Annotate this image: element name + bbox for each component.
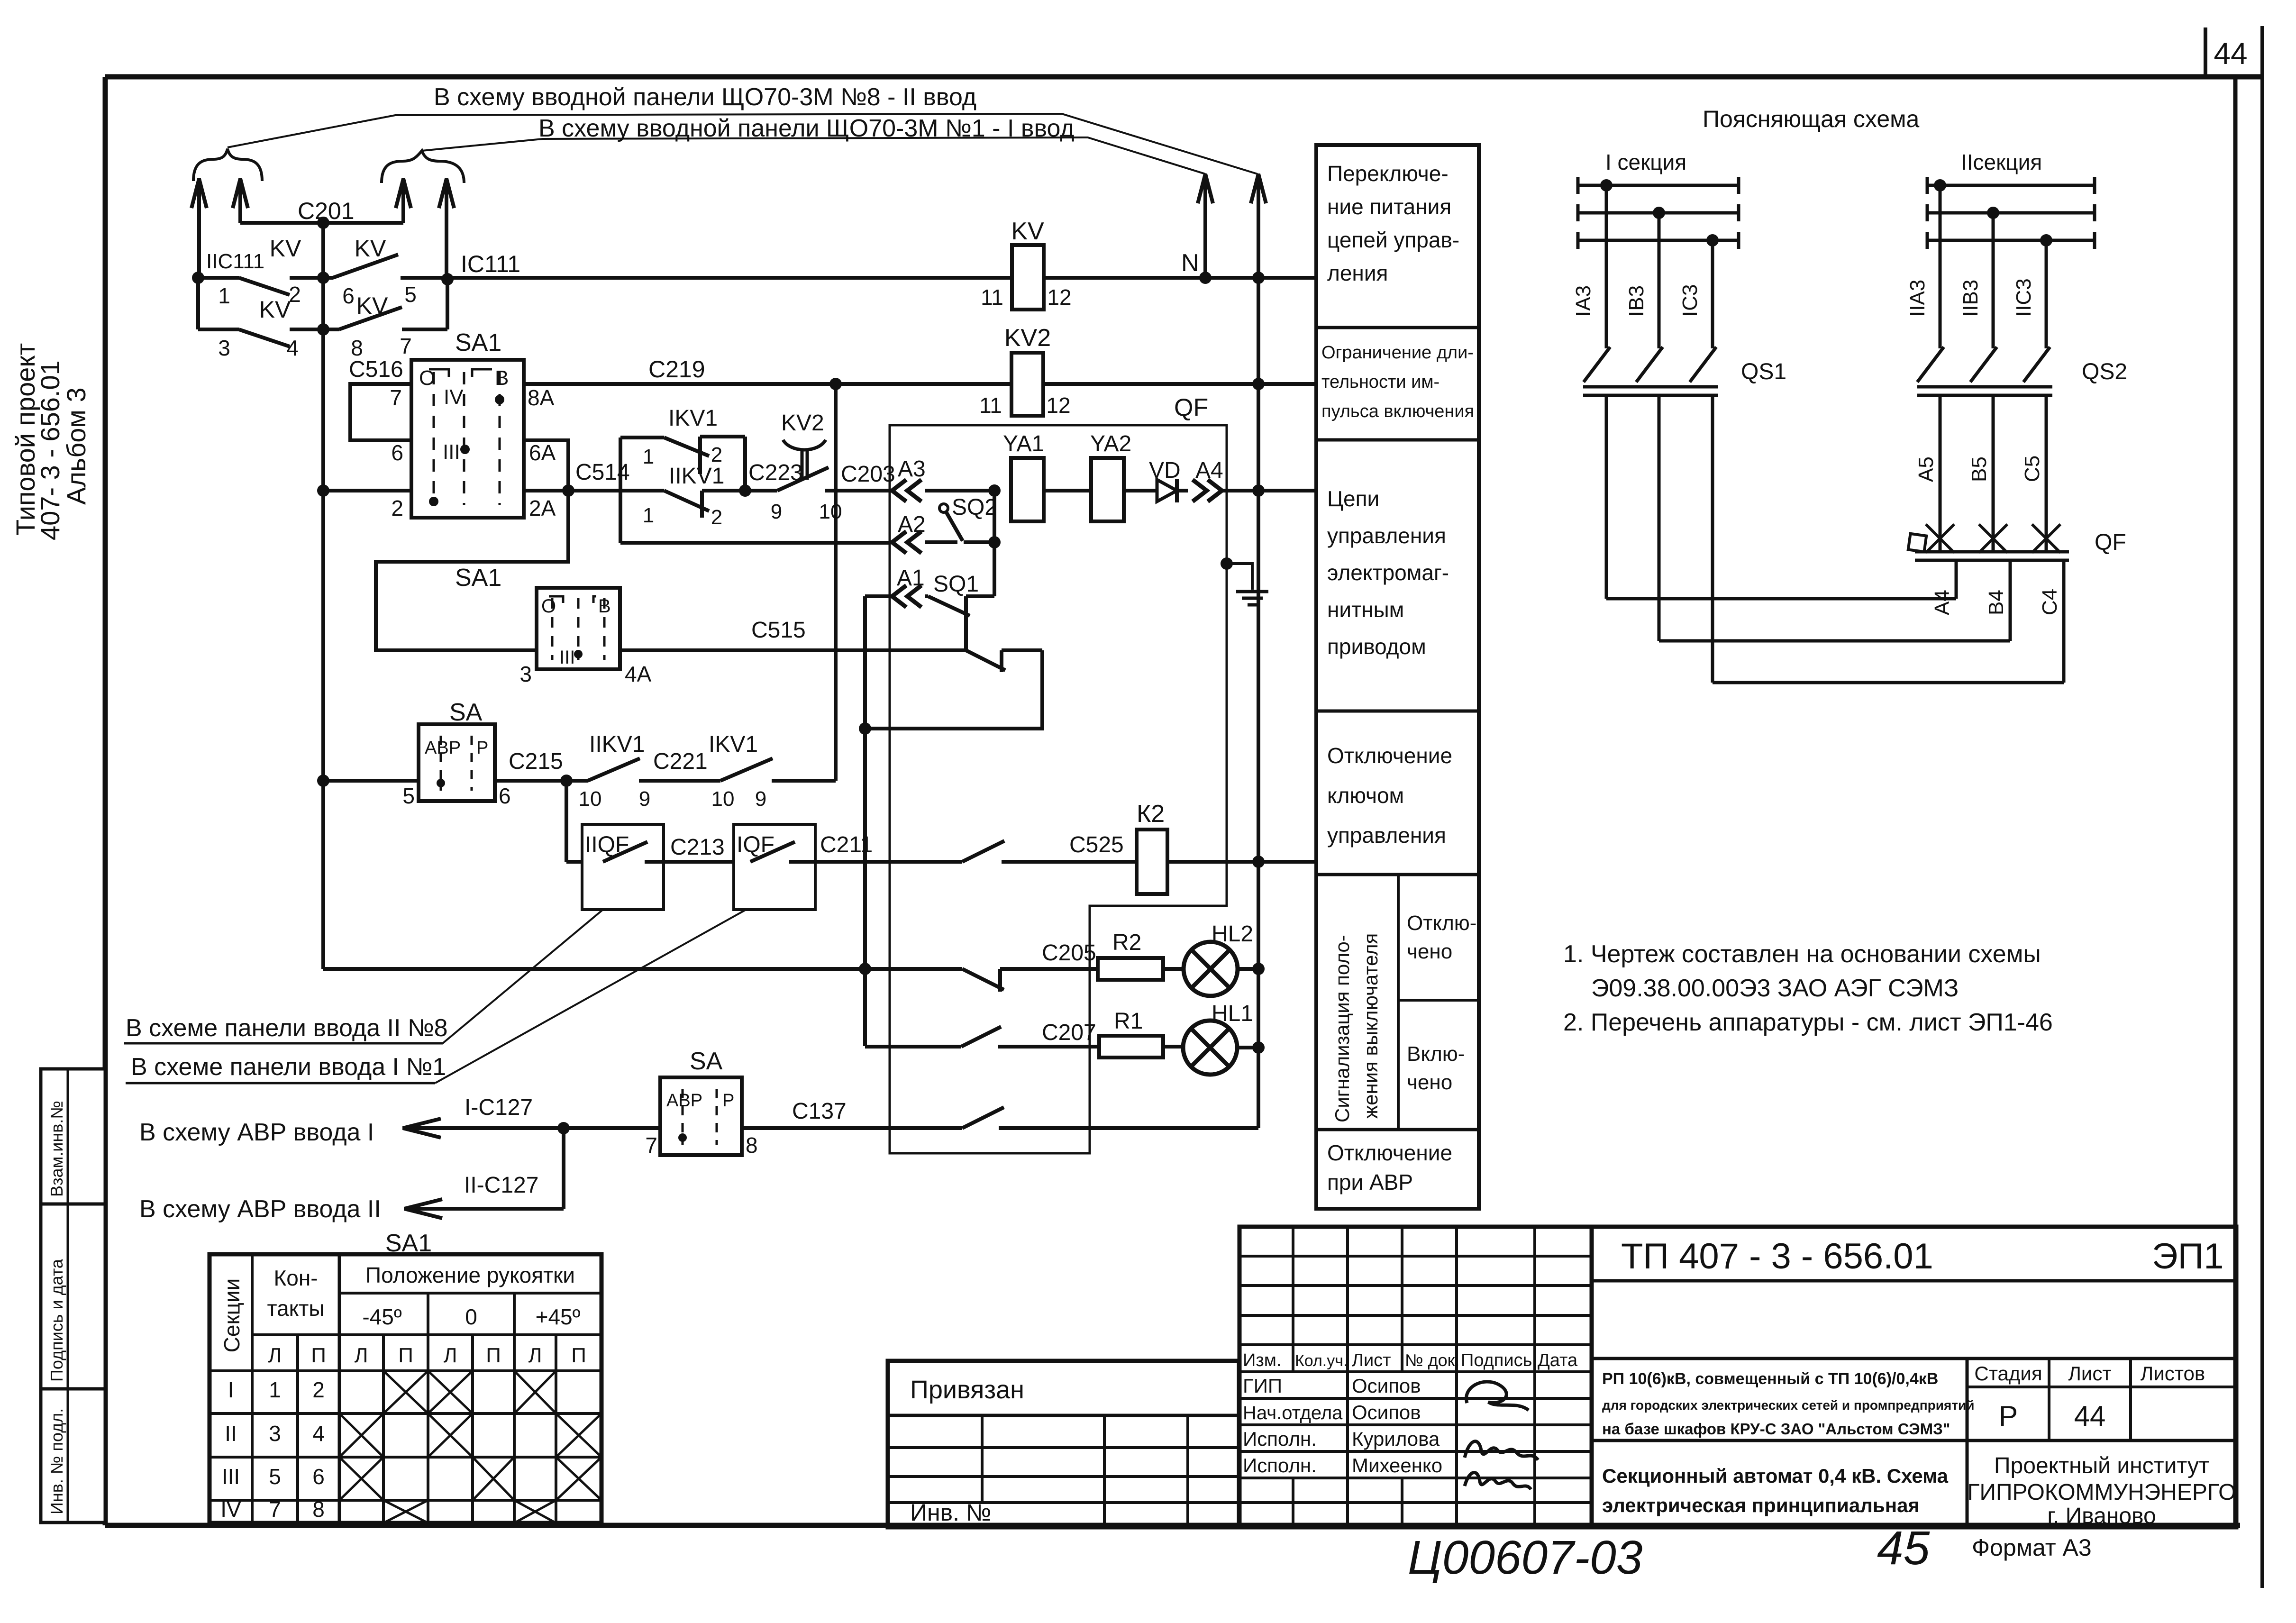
svg-text:Переключе-: Переключе- <box>1327 161 1449 186</box>
junction C219 at N bus <box>1252 378 1265 390</box>
svg-text:IV: IV <box>444 385 464 409</box>
svg-text:3: 3 <box>269 1421 281 1446</box>
svg-text:9: 9 <box>771 500 782 523</box>
SA lower dashed right <box>716 1089 718 1145</box>
svg-text:Р: Р <box>1999 1400 2018 1432</box>
wire R1 to HL1 <box>1163 1045 1183 1049</box>
staff row line y3170 <box>1239 1501 1592 1504</box>
SA lower dashed left <box>682 1089 684 1145</box>
bus tap IC3 <box>1706 234 1719 246</box>
svg-text:Л: Л <box>444 1344 457 1367</box>
svg-text:IIА3: IIА3 <box>1906 280 1929 317</box>
busbars section I <box>1578 184 1739 187</box>
privyazan line 4 <box>888 1501 1239 1504</box>
svg-text:Осипов: Осипов <box>1352 1401 1421 1423</box>
relay contact KV 8-7 arm <box>339 307 402 329</box>
svg-text:1: 1 <box>218 283 230 308</box>
svg-text:С219: С219 <box>648 356 705 383</box>
wire A1 branch vertical <box>863 596 867 1046</box>
svg-text:В: В <box>495 366 509 390</box>
svg-text:управления: управления <box>1327 823 1446 848</box>
wire A1 row from branch vertical <box>865 594 891 598</box>
svg-text:IВ3: IВ3 <box>1625 285 1648 317</box>
relay contact KV 6-5 arm <box>333 255 398 278</box>
svg-text:KV2: KV2 <box>1004 324 1051 352</box>
svg-text:на базе шкафов КРУ-С ЗАО "Альс: на базе шкафов КРУ-С ЗАО "Альстом СЭМЗ" <box>1602 1420 1950 1438</box>
wire C207 to R1 <box>998 1045 1099 1049</box>
wire aux contact loop to A1 branch <box>865 650 1042 729</box>
svg-text:К2: К2 <box>1137 800 1165 828</box>
svg-text:7: 7 <box>400 334 412 358</box>
svg-text:г. Иваново: г. Иваново <box>2047 1504 2156 1529</box>
title block main frame <box>1592 1227 2236 1527</box>
wire C137 <box>742 1126 962 1130</box>
svg-text:С5: С5 <box>2021 456 2044 482</box>
switch SA AVR-R block 7-8 <box>660 1077 742 1155</box>
title block line above description <box>1592 1357 2236 1360</box>
svg-text:С215: С215 <box>509 749 563 774</box>
svg-text:В: В <box>598 596 611 617</box>
svg-text:45: 45 <box>1877 1522 1930 1575</box>
svg-text:В схему АВР ввода II: В схему АВР ввода II <box>139 1195 381 1223</box>
svg-text:ЭП1: ЭП1 <box>2152 1236 2224 1277</box>
svg-text:IKV1: IKV1 <box>709 732 758 757</box>
wire YA1 to YA2 <box>1044 489 1091 492</box>
junction C223 <box>739 484 751 497</box>
staff row line y3118 <box>1239 1477 1592 1479</box>
svg-text:R2: R2 <box>1112 930 1141 955</box>
wire B4 down <box>2009 560 2012 641</box>
wire C221 <box>639 779 720 783</box>
wire R2 to HL2 <box>1163 967 1184 971</box>
underline panel II no8 <box>124 1042 443 1045</box>
svg-text:2. Перечень аппаратуры - см. л: 2. Перечень аппаратуры - см. лист ЭП1-46 <box>1563 1009 2053 1036</box>
svg-text:5: 5 <box>269 1464 281 1489</box>
svg-text:О: О <box>541 596 556 617</box>
privyazan block <box>888 1361 1239 1527</box>
busbars section II <box>1927 184 2095 187</box>
breaker IIQF contact arm <box>603 842 647 862</box>
resistor R1 <box>1099 1036 1163 1058</box>
table col Sektsii divider <box>251 1254 254 1523</box>
svg-text:44: 44 <box>2074 1400 2106 1432</box>
svg-text:Секции: Секции <box>219 1278 244 1353</box>
svg-text:ГИП: ГИП <box>1243 1375 1282 1397</box>
function table frame <box>1316 145 1479 1209</box>
svg-text:10: 10 <box>819 500 842 523</box>
svg-text:QS2: QS2 <box>2082 359 2127 384</box>
svg-text:Подпись и дата: Подпись и дата <box>47 1258 66 1382</box>
wire SQ1 to aux contact <box>964 621 968 650</box>
wire IIB3 <box>1992 213 1995 348</box>
table subcol LP divider 2 <box>382 1335 385 1523</box>
table subcol LP divider 3 <box>471 1335 474 1523</box>
svg-text:I секция: I секция <box>1605 150 1686 174</box>
wire U link phase B <box>1659 639 2010 643</box>
svg-text:I-С127: I-С127 <box>465 1095 533 1120</box>
wire row to function table <box>1258 489 1316 492</box>
wire C515 row <box>620 648 966 652</box>
svg-text:А3: А3 <box>898 456 926 482</box>
svg-text:Привязан: Привязан <box>910 1376 1024 1404</box>
revision table line y2837 <box>1239 1343 1592 1346</box>
svg-text:Ограничение дли-: Ограничение дли- <box>1321 343 1474 363</box>
wire rail IIC111-IC111 <box>198 276 239 280</box>
svg-text:Формат А3: Формат А3 <box>1972 1534 2092 1561</box>
SA lower contact dot <box>678 1133 687 1142</box>
svg-text:1: 1 <box>269 1377 281 1402</box>
svg-text:Отклю-: Отклю- <box>1407 912 1476 935</box>
coil YA2 tripping solenoid <box>1091 458 1124 521</box>
relay coil KV <box>1012 245 1044 310</box>
underline panel I no1 <box>126 1082 435 1085</box>
wire C516 loop pins 7-6 <box>350 384 411 440</box>
revision table col x3238 <box>1533 1227 1536 1527</box>
table subcol LP divider 4 <box>555 1335 557 1523</box>
svg-text:407- 3 - 656.01: 407- 3 - 656.01 <box>35 360 65 540</box>
svg-text:3: 3 <box>218 336 230 360</box>
breaker aux contact box IQF <box>734 824 815 910</box>
wire C514 node down to A2 row <box>619 491 622 543</box>
relay coil KV2 <box>1011 353 1043 416</box>
junction N right <box>1252 272 1265 284</box>
function table row line y1845 <box>1316 873 1479 876</box>
SA1 lower contact dot <box>574 650 583 658</box>
svg-text:В5: В5 <box>1968 456 1991 482</box>
svg-text:Вклю-: Вклю- <box>1407 1042 1465 1066</box>
bus tap IB3 <box>1653 207 1665 219</box>
svg-text:KV: KV <box>356 292 388 319</box>
signature squiggle 1 <box>1467 1382 1529 1410</box>
revision table line y2894 <box>1239 1370 1592 1373</box>
svg-text:III: III <box>222 1464 240 1489</box>
svg-text:12: 12 <box>1046 393 1070 418</box>
wire A5 <box>1939 395 1942 552</box>
svg-text:HL1: HL1 <box>1212 1001 1253 1026</box>
feeder arrow II to C201 <box>238 179 242 223</box>
svg-text:С213: С213 <box>670 835 725 860</box>
svg-text:А5: А5 <box>1914 456 1938 482</box>
svg-text:С4: С4 <box>2038 589 2061 615</box>
svg-text:SQ1: SQ1 <box>933 572 979 597</box>
svg-text:АВР: АВР <box>425 738 461 758</box>
svg-text:2: 2 <box>711 506 722 529</box>
SA1 contact dot III <box>460 445 470 454</box>
junction rail1 left <box>192 272 204 284</box>
wire IIC3 <box>2045 240 2048 348</box>
table header row line 1 <box>339 1292 601 1295</box>
feeder arrow IC111 <box>445 179 448 278</box>
svg-text:2: 2 <box>289 282 301 307</box>
relay contact IIKV1 10-9 arm <box>588 758 640 781</box>
svg-text:А1: А1 <box>897 565 925 591</box>
connector A2 chevrons <box>892 531 906 553</box>
table data row line 2 <box>210 1456 601 1459</box>
svg-text:6А: 6А <box>529 440 556 465</box>
svg-text:ТП 407 - 3 - 656.01: ТП 407 - 3 - 656.01 <box>1621 1236 1933 1277</box>
wire SA1 2A to C514 <box>524 489 620 492</box>
svg-text:8А: 8А <box>528 385 555 410</box>
list-listov divider <box>2129 1359 2132 1441</box>
privyazan col 1 <box>981 1415 984 1503</box>
SA1 lower dashed line 1 <box>551 598 554 660</box>
wire II-C127 with arrow <box>404 1207 564 1211</box>
privyazan line 3 <box>888 1475 1239 1478</box>
resistor R2 <box>1098 958 1163 980</box>
SA1 dashed position line 2 <box>463 372 465 505</box>
table data row line 1 <box>210 1412 601 1415</box>
wire C4 down <box>2062 560 2066 683</box>
svg-text:С205: С205 <box>1042 940 1096 966</box>
svg-text:Курилова: Курилова <box>1352 1428 1440 1450</box>
svg-text:2: 2 <box>391 496 403 520</box>
svg-text:IА3: IА3 <box>1572 285 1595 317</box>
wire HL2 to N bus <box>1238 967 1258 971</box>
svg-text:Цепи: Цепи <box>1327 486 1379 511</box>
wire left bus to SA1 pin 2 <box>323 489 411 492</box>
function table row line y691 <box>1316 326 1479 329</box>
svg-text:10: 10 <box>579 787 602 811</box>
svg-text:для городских электрических се: для городских электрических сетей и пром… <box>1602 1398 1974 1413</box>
wire IKV1 to vertical <box>772 779 836 783</box>
privyazan col 3 <box>1186 1415 1189 1527</box>
breaker QF aux contact closing circuit <box>966 650 1005 670</box>
svg-text:П: П <box>311 1344 326 1367</box>
svg-text:Положение рукоятки: Положение рукоятки <box>365 1263 575 1287</box>
svg-text:Э09.38.00.00Э3 ЗАО АЭГ СЭМЗ: Э09.38.00.00Э3 ЗАО АЭГ СЭМЗ <box>1591 975 1959 1002</box>
svg-text:В схему АВР ввода I: В схему АВР ввода I <box>139 1119 374 1146</box>
svg-text:Кон-: Кон- <box>273 1266 318 1290</box>
wire C205 row <box>323 967 962 971</box>
wire I-C127 with arrow <box>403 1126 660 1130</box>
stadiya-list divider <box>2048 1359 2050 1441</box>
margin box Подпись и дата <box>41 1204 105 1389</box>
svg-text:С525: С525 <box>1069 832 1124 857</box>
wire C213 <box>645 860 734 864</box>
svg-text:управления: управления <box>1327 523 1446 548</box>
svg-text:I: I <box>228 1377 234 1402</box>
page outer right edge <box>2260 26 2264 1588</box>
svg-text:РП 10(6)кВ, совмещенный с ТП 1: РП 10(6)кВ, совмещенный с ТП 10(6)/0,4кВ <box>1602 1370 1938 1388</box>
svg-text:IIKV1: IIKV1 <box>589 732 645 757</box>
title block line above institute <box>1592 1439 2236 1442</box>
wire IIA3 <box>1939 185 1942 348</box>
table data row line 3 <box>210 1499 601 1502</box>
svg-text:IC111: IC111 <box>461 251 520 277</box>
svg-text:5: 5 <box>402 784 415 808</box>
svg-text:Ц00607-03: Ц00607-03 <box>1408 1531 1642 1584</box>
wire YA2 to VD <box>1124 489 1157 492</box>
wire left bus to SA pin 5 <box>323 779 419 783</box>
leader line to panel II label <box>443 910 603 1043</box>
svg-text:Подпись: Подпись <box>1461 1350 1532 1370</box>
svg-text:SA1: SA1 <box>455 564 501 592</box>
junction C514 <box>562 484 574 497</box>
svg-text:IIKV1: IIKV1 <box>669 464 724 489</box>
relay contact IKV1 1-2 upper branch <box>619 438 622 491</box>
junction rail1 center <box>317 272 329 284</box>
junction C215 <box>560 775 573 787</box>
wire C525 <box>1002 860 1137 864</box>
svg-text:6: 6 <box>391 440 403 465</box>
svg-text:2А: 2А <box>529 496 556 520</box>
wire A4 down <box>1955 560 1958 599</box>
wire IA3 <box>1605 185 1608 348</box>
svg-text:при АВР: при АВР <box>1327 1170 1413 1194</box>
svg-text:9: 9 <box>755 787 766 811</box>
wire rail KV 3-4 8-7 <box>198 328 239 331</box>
revision table col x3073 <box>1455 1227 1458 1527</box>
junction rail2 center <box>317 323 329 336</box>
wire K2 to N bus <box>1167 860 1316 864</box>
junction HL2 at N bus <box>1252 963 1265 975</box>
function table row line y2383 <box>1316 1128 1479 1131</box>
SA1 position arrow B <box>472 369 492 377</box>
diode VD <box>1157 480 1177 501</box>
svg-text:С137: С137 <box>792 1099 847 1124</box>
svg-text:Лист: Лист <box>2068 1362 2111 1385</box>
SA1 lower dashed line 2 <box>577 598 580 660</box>
svg-text:1. Чертеж составлен на основан: 1. Чертеж составлен на основании схемы <box>1563 940 2041 968</box>
function table row 5 divider vertical <box>1397 875 1400 1130</box>
wire SQ1 to vertical <box>966 594 994 598</box>
revision table col x2958 <box>1401 1478 1403 1527</box>
svg-text:KV: KV <box>259 296 291 323</box>
svg-text:Сигнализация поло-: Сигнализация поло- <box>1331 935 1353 1122</box>
bus tap IIB3 <box>1987 207 1999 219</box>
margin box Взам.инв.№ <box>41 1069 105 1204</box>
stadiya header underline <box>1967 1386 2236 1388</box>
svg-text:Стадия: Стадия <box>1974 1362 2042 1385</box>
svg-text:10: 10 <box>711 787 735 811</box>
connector A4 chevrons <box>1193 480 1207 501</box>
breaker contact C205 arm <box>962 969 1004 990</box>
junction K2 at N bus <box>1252 856 1265 868</box>
svg-text:-45º: -45º <box>362 1304 401 1329</box>
svg-text:6: 6 <box>499 784 511 808</box>
bus tap IIC3 <box>2040 234 2052 246</box>
svg-text:Изм.: Изм. <box>1243 1350 1281 1370</box>
feeder arrow I to C201 <box>401 179 405 223</box>
svg-text:IKV1: IKV1 <box>668 406 718 431</box>
svg-text:IIC111: IIC111 <box>206 250 264 273</box>
svg-text:В схеме панели ввода I №1: В схеме панели ввода I №1 <box>131 1053 446 1081</box>
svg-text:QS1: QS1 <box>1741 359 1786 384</box>
SA1 contact dot I <box>429 497 438 506</box>
svg-text:1: 1 <box>643 445 654 468</box>
svg-text:С516: С516 <box>349 357 403 382</box>
svg-text:Отключение: Отключение <box>1327 1140 1452 1165</box>
function table row line y1500 <box>1316 710 1479 713</box>
svg-text:0: 0 <box>465 1304 477 1329</box>
privyazan row line <box>888 1414 1239 1417</box>
svg-text:4: 4 <box>312 1421 325 1446</box>
wire IB3 <box>1658 213 1661 348</box>
SA1 lower position arrows <box>549 596 563 603</box>
signature squiggle 3 <box>1465 1473 1531 1489</box>
svg-text:IIсекция: IIсекция <box>1961 150 2042 174</box>
svg-text:В схему вводной панели ЩО70-3М: В схему вводной панели ЩО70-3М №8 - II в… <box>434 83 976 111</box>
svg-text:III: III <box>443 440 460 464</box>
wire A3-A2-A1 vertical <box>993 491 996 596</box>
junction left bus at SA1 row <box>317 484 329 497</box>
margin boxes inner divider <box>67 1069 69 1523</box>
svg-text:KV2: KV2 <box>781 410 824 436</box>
svg-text:ГИПРОКОММУНЭНЕРГО: ГИПРОКОММУНЭНЕРГО <box>1968 1480 2236 1505</box>
svg-text:Л: Л <box>355 1344 368 1367</box>
svg-text:IС3: IС3 <box>1678 284 1702 317</box>
leader line to input panel II <box>228 114 1257 174</box>
wire into IIQF box <box>566 860 603 864</box>
bus tap IA3 <box>1600 179 1613 191</box>
relay contact K2 row arm <box>962 841 1004 862</box>
revision table line y2650 <box>1239 1255 1592 1258</box>
breaker aux contact box IIQF <box>582 824 664 910</box>
svg-text:Исполн.: Исполн. <box>1243 1428 1317 1450</box>
switch SA1 section block <box>411 360 524 518</box>
svg-text:Проектный институт: Проектный институт <box>1994 1453 2209 1478</box>
relay coil K2 <box>1137 830 1167 894</box>
revision table col x2728 <box>1292 1227 1294 1372</box>
junction A2 node <box>988 536 1001 548</box>
svg-text:N: N <box>1181 249 1199 277</box>
svg-text:8: 8 <box>746 1133 758 1158</box>
revision table line y2775 <box>1239 1314 1592 1317</box>
svg-text:Михеенко: Михеенко <box>1352 1454 1442 1477</box>
wire B5 <box>1992 395 1995 552</box>
breaker QF enclosure box <box>890 425 1227 1153</box>
privyazan col 2 <box>1103 1415 1106 1527</box>
wire II-C127 drop <box>562 1128 565 1209</box>
svg-text:А4: А4 <box>1195 458 1223 483</box>
title block stadiya divider <box>1966 1359 1969 1527</box>
disconnector QS2 <box>1917 347 1944 382</box>
SA1 contact table frame <box>210 1254 601 1523</box>
wire QS1 pole B down <box>1658 395 1661 641</box>
junction C201 <box>317 217 329 229</box>
svg-text:Кол.уч.: Кол.уч. <box>1295 1352 1348 1370</box>
svg-text:5: 5 <box>404 282 417 307</box>
svg-text:С515: С515 <box>751 618 806 643</box>
svg-text:4: 4 <box>286 336 299 360</box>
svg-text:6: 6 <box>342 283 355 308</box>
svg-text:П: П <box>571 1344 586 1367</box>
svg-text:жения выключателя: жения выключателя <box>1359 933 1382 1119</box>
wire A1 stub <box>925 594 928 598</box>
SA1 dashed position line 1 <box>433 372 435 505</box>
table col 0 divider <box>513 1293 516 1523</box>
svg-text:2: 2 <box>312 1377 325 1402</box>
sheet number box divider <box>2204 27 2207 77</box>
svg-text:7: 7 <box>269 1497 281 1522</box>
wire C205 to R2 <box>1000 967 1098 971</box>
wire C207 row <box>865 1045 961 1049</box>
wire QS1 pole A down <box>1605 395 1608 599</box>
svg-text:Р: Р <box>476 738 488 758</box>
wire U link phase A <box>1606 597 1956 601</box>
lamp HL2 <box>1184 942 1238 996</box>
junction C219 branch <box>829 378 842 390</box>
svg-text:IIС3: IIС3 <box>2012 278 2035 317</box>
switch SA AVR-R block 5-6 <box>419 724 495 801</box>
wire C219 branch vertical to C221 contact <box>834 384 838 781</box>
relay contact IIKV1 1-2 on row <box>620 489 664 492</box>
breaker contact C137 arm <box>962 1107 1004 1128</box>
staff row line y3062 <box>1239 1450 1592 1453</box>
svg-text:пульса включения: пульса включения <box>1321 401 1474 421</box>
svg-text:ключом: ключом <box>1327 783 1404 808</box>
svg-text:А2: А2 <box>898 512 926 537</box>
